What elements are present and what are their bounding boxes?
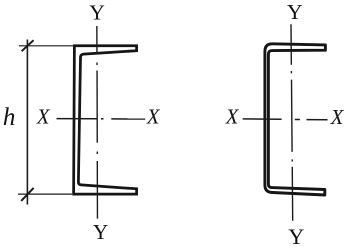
svg-text:X: X <box>225 105 240 129</box>
axis Y-Y right (vertical dash-dot centerline) <box>291 24 293 221</box>
svg-text:Y: Y <box>89 1 105 25</box>
svg-text:h: h <box>3 104 16 131</box>
axis Y-Y left (vertical dash-dot centerline) <box>96 26 99 219</box>
axis X-X right (horizontal dash-dot centerline) <box>243 118 328 121</box>
dimension tick bottom <box>21 188 33 201</box>
dimension line h (vertical) <box>26 40 28 205</box>
svg-text:Y: Y <box>288 224 304 247</box>
extension line top <box>19 45 73 47</box>
svg-text:X: X <box>146 105 161 129</box>
svg-text:Y: Y <box>93 220 108 244</box>
extension line bottom <box>18 193 72 195</box>
svg-text:Y: Y <box>287 0 303 24</box>
dimension tick top <box>22 40 34 51</box>
channel section left (hot-rolled, tapered flanges) <box>74 46 137 194</box>
svg-text:X: X <box>36 105 51 129</box>
axis X-X left (horizontal dash-dot centerline) <box>57 118 146 120</box>
svg-text:X: X <box>330 105 345 129</box>
channel section right (cold-formed, parallel flanges, rounded corners) <box>265 44 326 195</box>
